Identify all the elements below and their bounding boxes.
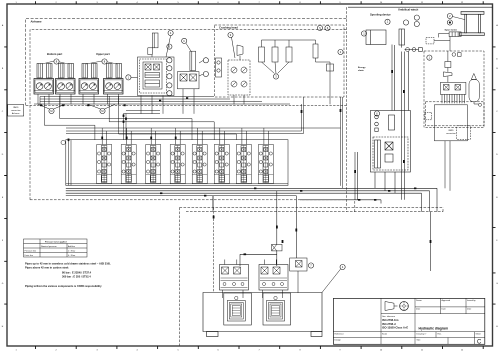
svg-text:Add bar: Add bar — [68, 245, 75, 248]
svg-text:Issued by: Issued by — [467, 300, 476, 302]
svg-text:80 bar : E 235N / ST37.4: 80 bar : E 235N / ST37.4 — [62, 270, 92, 274]
svg-text:Design: Design — [335, 340, 341, 342]
svg-text:0 : 8 bar: 0 : 8 bar — [68, 255, 76, 257]
svg-text:Pressure to be applied: Pressure to be applied — [45, 240, 67, 243]
svg-text:ISO-2768-1/m: ISO-2768-1/m — [382, 318, 399, 322]
svg-text:Pressure line: Pressure line — [25, 251, 38, 253]
svg-text:chain: chain — [358, 70, 364, 72]
svg-text:Spare brake: Spare brake — [445, 29, 458, 31]
svg-text:Approved: Approved — [442, 299, 451, 302]
svg-text:Upper part: Upper part — [96, 52, 110, 56]
svg-text:Airframe: Airframe — [12, 112, 20, 115]
svg-text:1 : 8 bar: 1 : 8 bar — [68, 251, 76, 253]
svg-text:Rev.: Rev. — [438, 334, 442, 336]
svg-text:Crushing head: Crushing head — [219, 26, 238, 30]
svg-text:connection: connection — [11, 109, 21, 112]
svg-text:YARD: YARD — [13, 106, 19, 109]
svg-text:Drawing n°: Drawing n° — [417, 334, 427, 336]
svg-text:Airframe: Airframe — [31, 20, 43, 24]
svg-text:Pipes up to 42 mm in seamless: Pipes up to 42 mm in seamless cold drawn… — [25, 262, 111, 266]
svg-text:Sheet: Sheet — [476, 333, 482, 336]
svg-text:Energy: Energy — [358, 67, 366, 69]
svg-text:Drawn: Drawn — [416, 300, 422, 302]
svg-text:300 bar : E 355 / ST52.4: 300 bar : E 355 / ST52.4 — [62, 275, 91, 279]
svg-text:Scale: Scale — [382, 334, 388, 336]
svg-text:Nominal pressure: Nominal pressure — [41, 246, 58, 248]
svg-text:YARD: YARD — [448, 129, 454, 132]
svg-text:Spooling device: Spooling device — [370, 13, 391, 17]
svg-text:ISO-2768-d: ISO-2768-d — [382, 322, 396, 326]
svg-text:Hydraulic diagram: Hydraulic diagram — [419, 327, 449, 331]
svg-text:Drain line: Drain line — [25, 255, 34, 257]
svg-text:ISO-13920-Class A+E: ISO-13920-Class A+E — [382, 326, 408, 330]
svg-text:C: C — [477, 340, 482, 346]
svg-text:M: M — [101, 109, 103, 113]
svg-text:Bottom part: Bottom part — [47, 52, 62, 56]
svg-text:Pipes above 42 mm in carbon st: Pipes above 42 mm in carbon steel: — [25, 265, 69, 269]
svg-text:Reference: Reference — [335, 334, 345, 336]
svg-text:M: M — [50, 109, 52, 113]
svg-text:Piping to/from the various com: Piping to/from the various components is… — [25, 284, 102, 288]
svg-text:connection: connection — [446, 132, 456, 135]
svg-text:Umbilical winch: Umbilical winch — [398, 8, 419, 12]
svg-text:Gen. tolerance: Gen. tolerance — [382, 315, 396, 318]
